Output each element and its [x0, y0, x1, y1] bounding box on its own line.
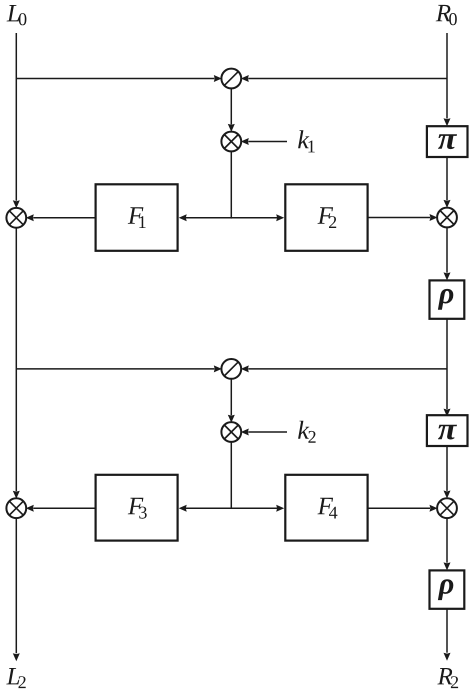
- XOR node k2: [221, 422, 241, 442]
- wire oslash 2 down to XOR k2: [228, 379, 235, 423]
- branch node oslash 2: [221, 359, 241, 379]
- branch node oslash 1: [221, 69, 241, 89]
- wire F2 output into XOR B1: [368, 214, 438, 221]
- box pi 1: [427, 126, 468, 157]
- label R2: [437, 668, 458, 688]
- XOR node k1: [221, 132, 241, 152]
- wire output R2 arrow: [444, 609, 451, 661]
- label L2: [6, 668, 25, 688]
- wire XOR k2 down to F row junction 2: [230, 442, 232, 509]
- wire output L2 arrow: [13, 518, 20, 661]
- wire L0 vertical down to XOR A1: [13, 33, 20, 208]
- XOR node B1 (right): [437, 208, 457, 228]
- wire rho 1 down into pi box 2: [444, 319, 451, 417]
- wire XOR B1 down into rho 1: [444, 227, 451, 280]
- wire F4 output into XOR B2: [368, 505, 438, 512]
- label k1: [298, 130, 315, 152]
- wire XOR k1 down to F row junction: [230, 151, 232, 218]
- label R0: [436, 5, 457, 25]
- XOR node A2 (left): [6, 498, 26, 518]
- label k2: [298, 421, 316, 443]
- wire XOR A1 down to XOR A2: [13, 228, 20, 499]
- wire horizontal L-branch into oslash 1: [16, 75, 222, 82]
- box rho 2: [430, 570, 465, 608]
- wire horizontal L-branch into oslash 2: [16, 365, 222, 372]
- box F2: [285, 184, 367, 251]
- box F1: [96, 184, 178, 251]
- wire key k2 into XOR k2: [241, 429, 287, 436]
- wire key k1 into XOR k1: [241, 138, 287, 145]
- wire F3 output into XOR A2: [26, 505, 96, 512]
- wire XOR B2 down into rho 2: [444, 518, 451, 570]
- wire pi 2 down to XOR B2: [444, 446, 451, 499]
- wire horizontal R-branch into oslash 1: [241, 75, 447, 82]
- wire oslash 1 down to XOR k1: [228, 88, 235, 131]
- box F4: [285, 475, 367, 541]
- box rho 1: [430, 280, 465, 318]
- wire F1 output into XOR A1: [26, 214, 96, 221]
- wire horizontal R-branch into oslash 2: [241, 365, 447, 372]
- XOR node B2 (right): [437, 498, 457, 518]
- box pi 2: [427, 415, 468, 446]
- wire pi 1 down to XOR B1: [444, 157, 451, 208]
- XOR node A1 (left): [6, 208, 26, 228]
- wire R0 vertical down into pi box 1: [444, 33, 451, 126]
- box F3: [96, 475, 178, 541]
- wire junction to F3 and F4 inputs: [179, 505, 285, 512]
- label L0: [7, 5, 27, 25]
- wire junction to F1 and F2 inputs: [179, 214, 285, 221]
